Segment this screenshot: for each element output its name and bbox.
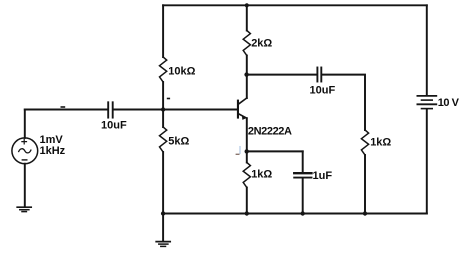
capacitor C 10uF output plate right xyxy=(320,68,322,82)
resistor 10kΩ xyxy=(160,57,167,82)
svg-text:1kΩ: 1kΩ xyxy=(251,169,272,181)
svg-text:2N2222A: 2N2222A xyxy=(248,126,292,138)
battery V2 plate short bottom xyxy=(422,108,433,110)
wire rail to R 2k xyxy=(246,5,248,30)
wire 10k bottom to base node xyxy=(162,82,164,110)
node stray mark input wire xyxy=(61,106,64,108)
ground source bar3 xyxy=(22,211,26,213)
ac source sine wave xyxy=(19,149,31,153)
resistor 2kΩ xyxy=(243,31,250,56)
battery V2 plate long bottom xyxy=(417,103,436,105)
svg-text:10uF: 10uF xyxy=(310,84,336,96)
wire 2k to collector node xyxy=(246,56,248,75)
node emitter junction xyxy=(245,149,249,153)
wire bottom rail to ground xyxy=(162,214,164,242)
wire collector node down xyxy=(246,75,248,98)
node bottom rail load junction xyxy=(363,211,367,215)
wire top rail xyxy=(163,4,427,6)
node bottom rail emitter junction xyxy=(245,211,249,215)
transistor emitter lead xyxy=(239,114,247,118)
svg-text:1kΩ: 1kΩ xyxy=(370,137,391,149)
resistor 1kΩ emitter xyxy=(243,163,250,188)
svg-text:10 V: 10 V xyxy=(438,97,460,109)
wire bypass branch down xyxy=(302,151,304,172)
capacitor C 1uF plate bottom xyxy=(294,177,311,179)
svg-text:1kHz: 1kHz xyxy=(40,145,66,157)
wire source top lead xyxy=(24,110,26,138)
battery V2 plate short xyxy=(422,99,433,101)
node bottom rail ground junction xyxy=(161,211,165,215)
wire 1k load to bottom rail xyxy=(364,155,366,213)
capacitor C 1uF plate top xyxy=(294,172,311,174)
node stray mark emitter blue xyxy=(239,147,241,154)
wire emitter node to bypass cap xyxy=(247,150,303,152)
resistor 5kΩ xyxy=(160,127,167,152)
svg-text:5kΩ: 5kΩ xyxy=(168,135,189,147)
wire left branch top (rail to R 10k) xyxy=(162,5,164,57)
ac source V1 circle xyxy=(12,138,38,164)
wire source bottom lead xyxy=(24,164,26,207)
ground main bar3 xyxy=(161,245,166,247)
wire C1 to base node xyxy=(114,109,164,111)
capacitor C 10uF output plate left xyxy=(316,68,318,82)
svg-text:10uF: 10uF xyxy=(101,120,127,132)
wire 5k bottom to bottom rail xyxy=(162,152,164,214)
wire emitter down to emitter node xyxy=(246,118,248,151)
transistor collector lead xyxy=(239,98,247,104)
node stray mark base branch xyxy=(168,98,170,100)
ac source plus sign xyxy=(22,139,27,144)
wire base node to transistor base xyxy=(163,109,237,111)
transistor emitter arrowhead xyxy=(242,116,247,120)
node bottom rail bypass junction xyxy=(301,211,305,215)
svg-text:1uF: 1uF xyxy=(313,170,333,182)
ground main bar1 xyxy=(156,241,170,243)
wire emitter node to R 1k emitter xyxy=(246,151,248,162)
wire output cap to load corner xyxy=(322,75,365,130)
wire battery bottom lead xyxy=(426,109,428,213)
svg-text:2kΩ: 2kΩ xyxy=(251,37,272,49)
wire input horizontal (source to C1) xyxy=(25,109,108,111)
transistor Q1 2N2222A base bar xyxy=(237,100,239,119)
resistor 1kΩ load xyxy=(361,130,368,155)
wire battery top lead xyxy=(426,5,428,95)
capacitor C 10uF input plate right xyxy=(112,102,114,117)
wire 1uF to bottom rail xyxy=(302,179,304,214)
ac source minus sign xyxy=(22,159,27,161)
wire collector node to output cap xyxy=(247,74,317,76)
capacitor C 10uF input plate left xyxy=(107,102,109,117)
wire base node to R 5k xyxy=(162,110,164,128)
wire bottom rail xyxy=(163,213,427,215)
ground source bar1 xyxy=(17,206,31,208)
ground source bar2 xyxy=(20,209,29,211)
ground main bar2 xyxy=(159,243,168,245)
node top rail to 2k junction xyxy=(245,3,249,7)
node collector junction xyxy=(244,72,248,76)
node base-divider junction xyxy=(161,107,165,111)
wire 1k emitter to bottom rail xyxy=(246,188,248,214)
battery V2 plate long top xyxy=(417,95,436,97)
node stray mark emitter dark xyxy=(236,153,239,155)
svg-text:10kΩ: 10kΩ xyxy=(168,66,195,78)
